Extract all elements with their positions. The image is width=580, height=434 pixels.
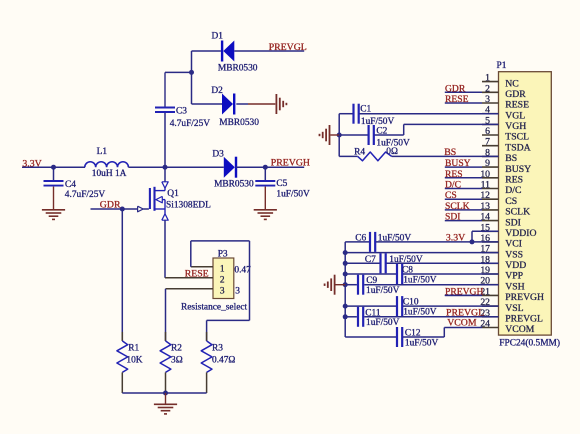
- svg-text:R3: R3: [212, 343, 223, 353]
- svg-text:9: 9: [485, 158, 490, 169]
- svg-text:RES: RES: [445, 169, 463, 180]
- svg-text:C3: C3: [176, 106, 187, 116]
- svg-text:C4: C4: [65, 180, 76, 190]
- svg-text:7: 7: [485, 137, 490, 148]
- svg-text:VGL: VGL: [505, 110, 525, 121]
- svg-text:0Ω: 0Ω: [386, 147, 398, 157]
- svg-text:1: 1: [485, 73, 490, 84]
- svg-text:2: 2: [485, 83, 490, 94]
- svg-text:C7: C7: [365, 255, 376, 265]
- svg-text:FPC24(0.5MM): FPC24(0.5MM): [499, 338, 560, 349]
- svg-text:GDR: GDR: [505, 89, 526, 100]
- svg-text:10K: 10K: [126, 355, 142, 365]
- svg-text:VDD: VDD: [505, 260, 526, 271]
- svg-text:10uH 1A: 10uH 1A: [92, 169, 127, 179]
- svg-text:C12: C12: [405, 329, 421, 339]
- svg-text:SCLK: SCLK: [505, 207, 530, 218]
- svg-text:C6: C6: [355, 233, 366, 243]
- svg-text:D2: D2: [211, 86, 223, 96]
- svg-text:3: 3: [220, 287, 225, 297]
- svg-text:1uF/50V: 1uF/50V: [378, 233, 412, 243]
- svg-text:0.47Ω: 0.47Ω: [212, 355, 235, 365]
- svg-text:PREVGL: PREVGL: [269, 42, 307, 53]
- svg-text:1uF/50V: 1uF/50V: [405, 338, 439, 348]
- svg-text:VPP: VPP: [505, 271, 523, 282]
- svg-text:NC: NC: [505, 78, 518, 89]
- svg-text:MBR0530: MBR0530: [214, 179, 254, 189]
- svg-text:BUSY: BUSY: [445, 158, 471, 169]
- svg-text:PREVGH: PREVGH: [271, 157, 310, 168]
- svg-text:P3: P3: [218, 249, 228, 259]
- svg-text:1uF/50V: 1uF/50V: [361, 117, 395, 127]
- svg-text:VSL: VSL: [505, 303, 523, 314]
- svg-text:3Ω: 3Ω: [171, 355, 183, 365]
- svg-text:1uF/50V: 1uF/50V: [366, 318, 400, 328]
- svg-text:SCLK: SCLK: [445, 201, 470, 212]
- svg-text:BUSY: BUSY: [505, 164, 531, 175]
- svg-text:TSCL: TSCL: [505, 132, 529, 143]
- svg-text:MBR0530: MBR0530: [218, 63, 258, 73]
- svg-text:0.47: 0.47: [234, 265, 251, 275]
- svg-text:RESE: RESE: [505, 100, 529, 111]
- svg-text:6: 6: [485, 126, 490, 137]
- svg-text:C5: C5: [276, 179, 287, 189]
- svg-text:1uF/50V: 1uF/50V: [276, 189, 310, 199]
- svg-text:BS: BS: [505, 153, 517, 164]
- svg-text:D3: D3: [212, 149, 224, 159]
- svg-text:4.7uF/25V: 4.7uF/25V: [65, 190, 106, 200]
- svg-text:RESE: RESE: [185, 269, 209, 280]
- svg-text:TSDA: TSDA: [505, 142, 530, 153]
- svg-text:PREVGH: PREVGH: [505, 292, 544, 303]
- svg-text:VCOM: VCOM: [505, 324, 534, 335]
- svg-text:D/C: D/C: [445, 180, 461, 191]
- svg-text:C9: C9: [366, 276, 377, 286]
- svg-text:MBR0530: MBR0530: [219, 118, 259, 128]
- svg-text:CS: CS: [445, 190, 457, 201]
- svg-text:4.7uF/25V: 4.7uF/25V: [170, 119, 211, 129]
- svg-text:1uF/50V: 1uF/50V: [403, 308, 437, 318]
- svg-text:3: 3: [485, 94, 490, 105]
- svg-text:RES: RES: [505, 175, 523, 186]
- svg-text:R1: R1: [128, 343, 139, 353]
- svg-text:1uF/50V: 1uF/50V: [366, 286, 400, 296]
- svg-text:VGH: VGH: [505, 121, 526, 132]
- svg-text:1uF/50V: 1uF/50V: [403, 275, 437, 285]
- svg-text:SDI: SDI: [445, 212, 460, 223]
- svg-text:Si1308EDL: Si1308EDL: [166, 200, 211, 210]
- svg-text:R2: R2: [171, 343, 182, 353]
- svg-text:VSH: VSH: [505, 281, 524, 292]
- svg-text:RESE: RESE: [445, 94, 469, 105]
- svg-text:11: 11: [481, 180, 490, 191]
- svg-text:VDDIO: VDDIO: [505, 228, 536, 239]
- svg-text:C2: C2: [376, 127, 387, 137]
- svg-text:C11: C11: [365, 308, 381, 318]
- svg-text:2: 2: [220, 276, 225, 286]
- svg-text:GDR: GDR: [445, 83, 466, 94]
- svg-text:VSS: VSS: [505, 249, 523, 260]
- svg-text:3: 3: [235, 287, 240, 297]
- svg-text:D/C: D/C: [505, 185, 521, 196]
- svg-text:Q1: Q1: [167, 189, 179, 199]
- svg-text:P1: P1: [497, 61, 507, 71]
- svg-text:1: 1: [220, 265, 225, 275]
- svg-text:VCI: VCI: [505, 239, 522, 250]
- svg-text:L1: L1: [97, 147, 108, 157]
- svg-text:R4: R4: [354, 147, 365, 157]
- svg-text:SDI: SDI: [505, 217, 521, 228]
- svg-text:C8: C8: [402, 266, 413, 276]
- svg-text:D1: D1: [212, 32, 224, 42]
- svg-text:C10: C10: [403, 298, 419, 308]
- svg-text:C1: C1: [360, 105, 371, 115]
- svg-text:PREVGL: PREVGL: [505, 314, 543, 325]
- svg-text:CS: CS: [505, 196, 517, 207]
- svg-text:1uF/50V: 1uF/50V: [389, 255, 423, 265]
- svg-text:Resistance_select: Resistance_select: [181, 302, 248, 312]
